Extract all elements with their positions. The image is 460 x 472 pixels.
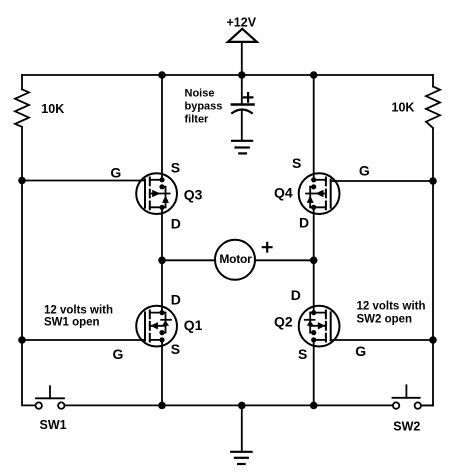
wire: motor right lead xyxy=(255,259,314,261)
svg-text:Q4: Q4 xyxy=(274,184,293,200)
junction dot: bottom rail / ground xyxy=(238,402,246,410)
svg-text:10K: 10K xyxy=(392,101,415,115)
svg-text:G: G xyxy=(113,346,124,362)
wire: bypass capacitor top lead xyxy=(241,75,243,105)
junction dot: top rail / Q3 source node xyxy=(158,71,166,79)
svg-text:S: S xyxy=(171,341,180,357)
svg-text:G: G xyxy=(355,343,366,359)
wire: Q3 source lead from top rail xyxy=(161,75,163,180)
wire: ground stem (bottom center) xyxy=(241,405,243,451)
svg-text:D: D xyxy=(171,292,181,308)
svg-text:S: S xyxy=(298,346,307,362)
motor M1 xyxy=(215,240,255,280)
switch SW1 (pushbutton, normally open) xyxy=(36,386,65,409)
note: 12 volts with SW2 open xyxy=(357,301,426,326)
transistor Q3 (P-ch MOSFET, high side left) xyxy=(136,173,177,214)
svg-text:12 volts with: 12 volts with xyxy=(357,301,426,313)
wire: Q1 source lead to bottom rail xyxy=(161,340,163,406)
wire: Q4 drain to motor node to Q2 drain xyxy=(313,207,315,312)
svg-text:D: D xyxy=(171,216,181,232)
wire: left rail upper stub xyxy=(21,75,23,89)
label: Noise bypass filter xyxy=(185,88,223,126)
svg-text:10K: 10K xyxy=(41,102,64,116)
wire: right rail down to SW2 xyxy=(421,128,433,405)
ground (below C1) xyxy=(232,141,252,154)
wire: bypass capacitor bottom lead xyxy=(241,111,243,141)
note: 12 volts with SW1 open xyxy=(44,304,113,328)
svg-text:S: S xyxy=(292,155,301,171)
wire: top +12V rail xyxy=(22,74,433,76)
junction dot: left rail / Q1 gate xyxy=(18,336,26,344)
junction dot: top rail / Q4 source node xyxy=(310,71,318,79)
svg-text:Q1: Q1 xyxy=(184,317,203,333)
wire: left rail down to SW1 xyxy=(22,127,36,406)
wire: gate wire to Q4 xyxy=(331,180,433,182)
ground (bottom center) xyxy=(231,452,251,464)
capacitor C1 (noise bypass, polarized) xyxy=(232,105,254,114)
junction dot: right rail / Q4 gate xyxy=(429,177,437,185)
junction dot: bottom rail / Q1 source xyxy=(158,402,166,410)
junction dot: bottom rail / Q2 source xyxy=(310,402,318,410)
svg-text:12 volts with: 12 volts with xyxy=(44,304,113,316)
resistor R2 10K (right) xyxy=(426,87,440,129)
junction dot: left rail / Q3 gate xyxy=(18,177,26,185)
resistor R1 10K (left) xyxy=(15,89,29,127)
svg-text:+12V: +12V xyxy=(227,15,257,29)
svg-text:G: G xyxy=(110,164,121,180)
transistor Q2 (N-ch MOSFET, low side right, mirrored) xyxy=(299,306,340,347)
svg-text:Motor: Motor xyxy=(219,252,252,266)
wire: gate wire to Q3 xyxy=(22,180,145,182)
wire: gate wire to Q1 xyxy=(22,339,145,341)
svg-text:SW2: SW2 xyxy=(393,419,420,433)
wire: Q3 drain to motor node to Q1 drain xyxy=(161,207,163,312)
svg-text:Q3: Q3 xyxy=(184,186,203,202)
transistor Q4 (P-ch MOSFET, high side right, mirrored) xyxy=(299,173,340,214)
switch SW2 (pushbutton, normally open) xyxy=(393,385,421,409)
svg-text:D: D xyxy=(299,215,309,231)
svg-text:filter: filter xyxy=(185,113,210,125)
wire: right rail upper stub xyxy=(432,75,434,87)
svg-text:Noise: Noise xyxy=(185,88,215,100)
wire: bottom rail xyxy=(65,404,393,406)
svg-text:G: G xyxy=(359,163,370,179)
junction dot: right rail / motor xyxy=(310,257,318,265)
svg-text:bypass: bypass xyxy=(185,101,223,113)
svg-text:Q2: Q2 xyxy=(274,313,293,329)
svg-text:SW1: SW1 xyxy=(40,418,67,432)
wire: SW2 to right rail stub xyxy=(421,404,433,406)
polarity mark + (motor right terminal) xyxy=(263,243,272,252)
junction dot: left rail / motor xyxy=(158,257,166,265)
wire: Q4 source lead from top rail xyxy=(313,75,315,180)
transistor Q1 (N-ch MOSFET, low side left) xyxy=(136,306,177,347)
wire: Q2 source lead to bottom rail xyxy=(313,340,315,406)
junction dot: right rail / Q2 gate xyxy=(429,336,437,344)
wire: gate wire to Q2 xyxy=(331,339,433,341)
junction dot: top rail / bypass capacitor xyxy=(238,71,246,79)
wire: motor left lead xyxy=(162,259,215,261)
svg-text:SW1 open: SW1 open xyxy=(44,317,100,329)
svg-text:SW2 open: SW2 open xyxy=(357,313,413,325)
svg-text:D: D xyxy=(291,287,301,303)
polarity mark + (C1) xyxy=(244,93,253,102)
power symbol +12V (arrow + lead) xyxy=(228,29,257,75)
svg-text:S: S xyxy=(171,160,180,176)
